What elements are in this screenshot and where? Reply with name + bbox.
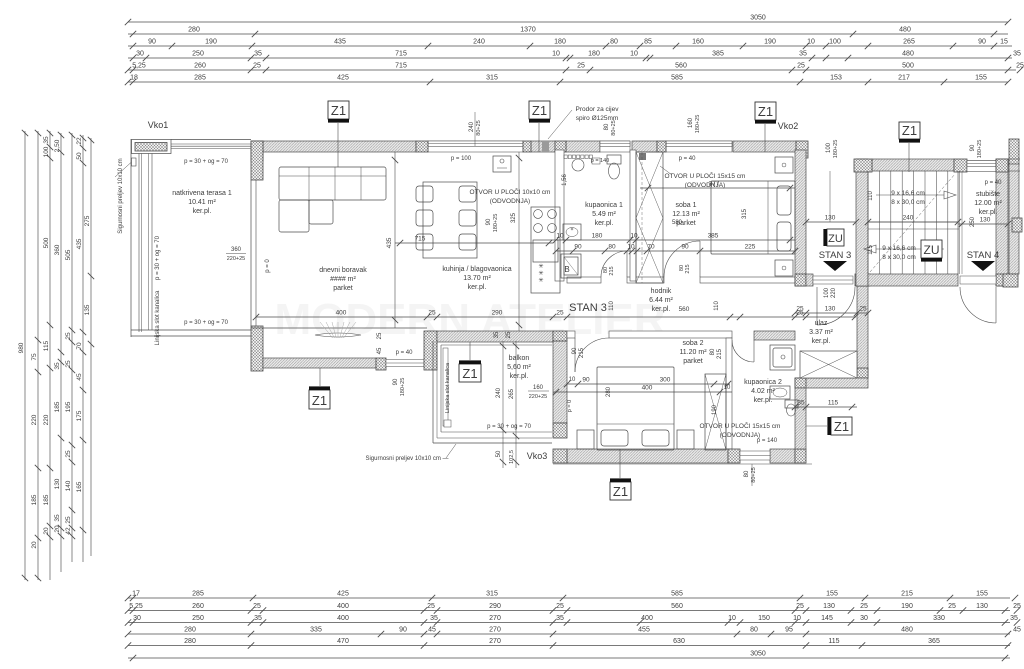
- svg-text:280: 280: [184, 638, 196, 645]
- svg-text:115: 115: [828, 399, 839, 406]
- svg-text:80: 80: [750, 626, 758, 633]
- svg-text:290: 290: [492, 309, 503, 316]
- svg-text:100: 100: [824, 287, 830, 298]
- svg-text:260: 260: [192, 603, 204, 610]
- svg-text:470: 470: [337, 638, 349, 645]
- svg-text:365: 365: [928, 638, 940, 645]
- svg-text:190: 190: [764, 38, 776, 45]
- svg-text:25: 25: [65, 360, 72, 368]
- svg-text:275: 275: [84, 215, 91, 226]
- svg-text:ulaz: ulaz: [815, 320, 828, 327]
- svg-text:90: 90: [148, 38, 156, 45]
- svg-text:25: 25: [506, 331, 512, 338]
- svg-text:715: 715: [395, 62, 407, 69]
- svg-text:17: 17: [132, 590, 140, 597]
- svg-text:70: 70: [76, 342, 83, 350]
- svg-text:215: 215: [717, 348, 723, 359]
- svg-text:42: 42: [65, 527, 72, 535]
- svg-text:220+25: 220+25: [529, 394, 548, 400]
- svg-text:425: 425: [337, 74, 349, 81]
- svg-text:270: 270: [489, 638, 501, 645]
- svg-text:90: 90: [978, 38, 986, 45]
- svg-text:10: 10: [807, 38, 815, 45]
- svg-text:3050: 3050: [750, 650, 766, 657]
- svg-text:280: 280: [188, 26, 200, 33]
- svg-text:8 x 30,0 cm: 8 x 30,0 cm: [882, 254, 916, 261]
- svg-text:parket: parket: [676, 220, 696, 227]
- svg-text:225: 225: [745, 243, 756, 250]
- svg-text:10: 10: [793, 615, 801, 622]
- svg-text:265: 265: [903, 38, 915, 45]
- svg-text:400: 400: [337, 615, 349, 622]
- svg-text:160: 160: [688, 117, 694, 128]
- svg-text:130: 130: [825, 305, 836, 312]
- svg-text:115: 115: [868, 245, 874, 255]
- svg-text:500: 500: [902, 62, 914, 69]
- svg-text:435: 435: [386, 237, 393, 248]
- svg-text:ker.pl.: ker.pl.: [510, 373, 529, 380]
- svg-text:90: 90: [393, 378, 399, 385]
- svg-text:115: 115: [43, 340, 50, 351]
- svg-text:115: 115: [828, 638, 839, 645]
- svg-text:Linijska slot kanalica: Linijska slot kanalica: [445, 362, 451, 413]
- svg-text:250: 250: [192, 615, 204, 622]
- svg-text:STAN 3: STAN 3: [819, 250, 852, 261]
- svg-text:20: 20: [54, 525, 61, 533]
- svg-text:85: 85: [644, 38, 652, 45]
- svg-text:ker.pl.: ker.pl.: [652, 306, 671, 313]
- svg-text:185: 185: [31, 494, 38, 505]
- svg-text:p = 140: p = 140: [757, 438, 778, 444]
- svg-text:p = 30 + og = 70: p = 30 + og = 70: [184, 159, 229, 165]
- svg-text:80+25: 80+25: [476, 120, 482, 135]
- svg-text:p = 140: p = 140: [591, 158, 610, 164]
- svg-text:ker.pl.: ker.pl.: [754, 397, 773, 404]
- svg-text:190: 190: [712, 404, 718, 415]
- svg-text:balkon: balkon: [509, 355, 530, 362]
- svg-text:630: 630: [673, 638, 685, 645]
- svg-text:160: 160: [533, 385, 544, 391]
- svg-text:45: 45: [1013, 626, 1021, 633]
- svg-text:325: 325: [511, 212, 517, 223]
- svg-text:ker.pl.: ker.pl.: [812, 338, 831, 345]
- svg-text:Z1: Z1: [462, 366, 477, 381]
- svg-text:45: 45: [428, 626, 436, 633]
- svg-text:10: 10: [627, 243, 635, 250]
- svg-text:6.44 m²: 6.44 m²: [649, 297, 673, 304]
- svg-text:130: 130: [54, 478, 61, 489]
- svg-text:220+25: 220+25: [227, 256, 246, 262]
- svg-text:35: 35: [54, 362, 61, 370]
- svg-text:280: 280: [184, 626, 196, 633]
- svg-text:190: 190: [205, 38, 217, 45]
- svg-text:215: 215: [609, 266, 615, 275]
- svg-text:✳: ✳: [538, 277, 543, 284]
- svg-text:135: 135: [84, 304, 91, 315]
- svg-text:90: 90: [572, 347, 578, 354]
- svg-text:stubište: stubište: [976, 191, 1000, 198]
- svg-text:p = 30 + og = 70: p = 30 + og = 70: [487, 424, 532, 430]
- svg-text:90: 90: [582, 376, 590, 383]
- svg-text:560: 560: [671, 603, 683, 610]
- svg-text:385: 385: [712, 50, 724, 57]
- svg-text:240: 240: [496, 387, 502, 398]
- svg-text:4.02 m²: 4.02 m²: [751, 388, 775, 395]
- svg-text:220: 220: [31, 414, 38, 425]
- svg-text:ker.pl.: ker.pl.: [193, 208, 212, 215]
- svg-text:11.20 m²: 11.20 m²: [679, 349, 707, 356]
- svg-text:400: 400: [641, 615, 653, 622]
- svg-text:kupaonica 2: kupaonica 2: [744, 379, 782, 386]
- svg-text:425: 425: [337, 590, 349, 597]
- svg-text:50: 50: [76, 152, 83, 160]
- svg-text:330: 330: [933, 615, 945, 622]
- svg-text:3.37 m²: 3.37 m²: [809, 329, 833, 336]
- svg-text:15: 15: [1000, 38, 1008, 45]
- svg-text:215: 215: [901, 590, 913, 597]
- svg-text:90: 90: [970, 144, 976, 151]
- svg-text:155: 155: [976, 590, 988, 597]
- svg-text:Z1: Z1: [834, 419, 849, 434]
- svg-text:STAN 4: STAN 4: [967, 250, 1000, 261]
- svg-text:p = 40: p = 40: [396, 350, 414, 356]
- svg-text:160: 160: [692, 38, 704, 45]
- svg-text:p = 40: p = 40: [985, 180, 1003, 186]
- svg-text:Z1: Z1: [758, 104, 773, 119]
- svg-text:180+25: 180+25: [833, 140, 839, 159]
- svg-text:10: 10: [630, 232, 638, 239]
- svg-text:B: B: [564, 265, 569, 274]
- svg-text:250: 250: [192, 50, 204, 57]
- svg-text:30: 30: [133, 615, 141, 622]
- svg-text:285: 285: [194, 74, 206, 81]
- svg-text:hodnik: hodnik: [651, 288, 672, 295]
- svg-text:220: 220: [831, 287, 837, 298]
- svg-text:165: 165: [76, 481, 83, 492]
- svg-text:240: 240: [473, 38, 485, 45]
- svg-text:95: 95: [785, 626, 793, 633]
- svg-text:217: 217: [898, 74, 910, 81]
- svg-text:155: 155: [826, 590, 838, 597]
- svg-text:(ODVODNJA): (ODVODNJA): [720, 432, 760, 439]
- svg-text:110: 110: [609, 301, 615, 311]
- svg-text:10: 10: [556, 232, 564, 239]
- svg-text:90: 90: [681, 243, 689, 250]
- svg-text:175: 175: [76, 410, 83, 421]
- svg-text:natkrivena terasa 1: natkrivena terasa 1: [172, 190, 232, 197]
- svg-text:190: 190: [901, 603, 913, 610]
- svg-text:(ODVODNJA): (ODVODNJA): [490, 198, 530, 205]
- svg-text:5,25: 5,25: [132, 62, 146, 69]
- svg-text:100: 100: [829, 38, 841, 45]
- svg-text:240: 240: [469, 121, 475, 132]
- svg-text:35: 35: [254, 615, 262, 622]
- svg-text:dnevni boravak: dnevni boravak: [319, 267, 367, 274]
- svg-text:130: 130: [976, 603, 988, 610]
- svg-text:180+25: 180+25: [977, 140, 983, 159]
- svg-text:Vko2: Vko2: [778, 121, 799, 131]
- svg-text:180: 180: [588, 50, 600, 57]
- svg-text:30: 30: [136, 50, 144, 57]
- svg-text:250: 250: [970, 216, 976, 227]
- svg-text:p = 40: p = 40: [679, 156, 697, 162]
- svg-text:155: 155: [975, 74, 987, 81]
- svg-text:80: 80: [744, 470, 750, 477]
- svg-text:25: 25: [428, 309, 436, 316]
- svg-text:180+25: 180+25: [493, 214, 499, 233]
- svg-text:315: 315: [486, 590, 498, 597]
- svg-text:285: 285: [192, 590, 204, 597]
- svg-text:110: 110: [714, 301, 720, 311]
- svg-text:22: 22: [76, 137, 83, 145]
- svg-text:35: 35: [494, 331, 500, 338]
- svg-text:75: 75: [31, 353, 38, 361]
- svg-text:3050: 3050: [750, 14, 766, 21]
- svg-text:5.49 m²: 5.49 m²: [592, 211, 616, 218]
- svg-text:25: 25: [859, 305, 867, 312]
- svg-text:35: 35: [430, 615, 438, 622]
- svg-text:OTVOR U PLOČI 10x10 cm: OTVOR U PLOČI 10x10 cm: [470, 187, 551, 196]
- svg-text:270: 270: [489, 615, 501, 622]
- svg-text:5,60 m²: 5,60 m²: [507, 364, 531, 371]
- svg-text:p = 30 + og = 70: p = 30 + og = 70: [155, 235, 161, 280]
- svg-text:35: 35: [254, 50, 262, 57]
- svg-text:25: 25: [796, 603, 804, 610]
- svg-text:360: 360: [54, 244, 61, 255]
- svg-text:35: 35: [797, 399, 805, 406]
- svg-text:185: 185: [54, 401, 61, 412]
- svg-text:25: 25: [556, 603, 564, 610]
- svg-text:25: 25: [860, 603, 868, 610]
- svg-text:315: 315: [486, 74, 498, 81]
- svg-text:180+25: 180+25: [695, 115, 701, 134]
- svg-text:150: 150: [758, 615, 770, 622]
- svg-text:980: 980: [18, 342, 25, 353]
- svg-text:10: 10: [724, 385, 731, 391]
- svg-text:p = 0: p = 0: [567, 400, 573, 412]
- svg-text:Z1: Z1: [331, 103, 346, 118]
- svg-text:✳: ✳: [538, 263, 543, 270]
- svg-text:480: 480: [901, 626, 913, 633]
- svg-text:195: 195: [65, 401, 72, 412]
- svg-text:435: 435: [76, 238, 83, 249]
- svg-text:25: 25: [797, 62, 805, 69]
- svg-text:300: 300: [660, 376, 671, 383]
- svg-text:140: 140: [65, 480, 72, 491]
- svg-text:50: 50: [496, 450, 502, 457]
- svg-text:560: 560: [675, 62, 687, 69]
- svg-text:80: 80: [610, 38, 618, 45]
- svg-text:kuhinja / blagovaonica: kuhinja / blagovaonica: [442, 266, 511, 273]
- svg-text:STAN 3: STAN 3: [569, 302, 607, 314]
- svg-text:215: 215: [685, 264, 691, 273]
- svg-text:80+25: 80+25: [611, 120, 617, 135]
- svg-text:130: 130: [980, 216, 991, 223]
- svg-text:385: 385: [708, 232, 719, 239]
- svg-text:25: 25: [1013, 603, 1021, 610]
- svg-text:90: 90: [399, 626, 407, 633]
- svg-text:240: 240: [903, 214, 914, 221]
- svg-text:ZU: ZU: [924, 243, 940, 257]
- svg-text:25: 25: [556, 309, 564, 316]
- svg-text:145: 145: [821, 615, 833, 622]
- svg-text:185: 185: [43, 494, 50, 505]
- svg-text:480: 480: [899, 26, 911, 33]
- svg-text:455: 455: [638, 626, 650, 633]
- svg-text:25: 25: [253, 603, 261, 610]
- svg-text:Vko3: Vko3: [527, 451, 548, 461]
- svg-text:35: 35: [54, 514, 61, 522]
- svg-text:(ODVODNJA): (ODVODNJA): [685, 182, 725, 189]
- svg-text:ZU: ZU: [828, 233, 843, 245]
- svg-text:p = 0: p = 0: [265, 259, 271, 273]
- svg-text:100: 100: [826, 142, 832, 153]
- svg-text:✳: ✳: [538, 270, 543, 277]
- svg-text:585: 585: [671, 590, 683, 597]
- svg-text:Linijska slot kanalica: Linijska slot kanalica: [155, 290, 161, 345]
- svg-text:1370: 1370: [520, 26, 536, 33]
- svg-text:soba 2: soba 2: [682, 340, 703, 347]
- svg-text:25: 25: [427, 603, 435, 610]
- svg-text:180+25: 180+25: [400, 378, 406, 397]
- svg-text:soba 1: soba 1: [675, 202, 696, 209]
- svg-text:Z1: Z1: [532, 103, 547, 118]
- svg-text:715: 715: [395, 50, 407, 57]
- svg-text:360: 360: [231, 247, 242, 253]
- svg-text:Z1: Z1: [312, 393, 327, 408]
- svg-text:80: 80: [710, 348, 716, 355]
- svg-text:25: 25: [65, 332, 72, 340]
- svg-text:400: 400: [337, 603, 349, 610]
- svg-text:spiro Ø125mm: spiro Ø125mm: [576, 115, 619, 122]
- svg-text:290: 290: [489, 603, 501, 610]
- svg-text:480: 480: [902, 50, 914, 57]
- svg-text:220: 220: [43, 414, 50, 425]
- svg-text:180: 180: [554, 38, 566, 45]
- svg-text:265: 265: [509, 388, 515, 399]
- svg-text:25: 25: [948, 603, 956, 610]
- svg-text:20: 20: [31, 541, 38, 549]
- svg-text:25: 25: [65, 450, 72, 458]
- svg-text:25: 25: [796, 305, 804, 312]
- svg-text:400: 400: [336, 309, 347, 316]
- svg-text:130: 130: [823, 603, 835, 610]
- svg-text:p = 100: p = 100: [451, 156, 472, 162]
- svg-text:90: 90: [574, 243, 582, 250]
- svg-text:435: 435: [334, 38, 346, 45]
- svg-text:10.41 m²: 10.41 m²: [188, 199, 216, 206]
- svg-text:Sigurnosni preljev 10x10 cm —: Sigurnosni preljev 10x10 cm —: [365, 456, 448, 462]
- svg-text:25: 25: [577, 62, 585, 69]
- svg-text:35: 35: [1010, 615, 1018, 622]
- svg-text:280: 280: [606, 386, 612, 397]
- svg-text:ker.pl.: ker.pl.: [595, 220, 614, 227]
- svg-text:560: 560: [679, 306, 690, 313]
- svg-text:500: 500: [43, 237, 50, 248]
- svg-text:25: 25: [65, 516, 72, 524]
- svg-text:215: 215: [579, 347, 585, 358]
- svg-text:260: 260: [194, 62, 206, 69]
- svg-text:Vko1: Vko1: [148, 120, 169, 130]
- svg-text:13.70 m²: 13.70 m²: [463, 275, 491, 282]
- svg-text:10: 10: [569, 377, 576, 383]
- svg-text:80: 80: [608, 243, 616, 250]
- svg-text:18: 18: [130, 74, 138, 81]
- svg-text:100: 100: [43, 146, 50, 157]
- svg-text:12.13 m²: 12.13 m²: [672, 211, 700, 218]
- svg-text:315: 315: [742, 208, 748, 219]
- svg-text:8 x 30,0 cm: 8 x 30,0 cm: [891, 199, 925, 206]
- svg-text:335: 335: [310, 626, 322, 633]
- svg-text:25: 25: [253, 62, 261, 69]
- svg-text:kupaonica 1: kupaonica 1: [585, 202, 623, 209]
- svg-text:Z1: Z1: [902, 123, 917, 138]
- svg-text:10: 10: [630, 50, 638, 57]
- svg-text:90: 90: [486, 218, 492, 225]
- svg-text:Z1: Z1: [613, 484, 628, 499]
- svg-text:110: 110: [868, 191, 874, 201]
- svg-text:70: 70: [647, 243, 655, 250]
- svg-text:35: 35: [799, 50, 807, 57]
- svg-text:9 x 16,6 cm: 9 x 16,6 cm: [882, 245, 916, 252]
- svg-text:35: 35: [43, 136, 50, 144]
- svg-text:45: 45: [377, 347, 383, 354]
- svg-text:715: 715: [415, 235, 426, 242]
- svg-text:p = 30 + og = 70: p = 30 + og = 70: [184, 320, 229, 326]
- svg-text:10: 10: [728, 615, 736, 622]
- svg-text:Prodor za cijev: Prodor za cijev: [576, 106, 620, 113]
- svg-text:180: 180: [592, 232, 603, 239]
- svg-text:25: 25: [1016, 62, 1024, 69]
- svg-text:2,50: 2,50: [54, 139, 61, 152]
- svg-text:ker.pl.: ker.pl.: [979, 209, 998, 216]
- svg-text:OTVOR U PLOČI 15x15 cm: OTVOR U PLOČI 15x15 cm: [665, 171, 746, 180]
- svg-text:585: 585: [671, 74, 683, 81]
- svg-text:#### m²: #### m²: [330, 276, 356, 283]
- svg-text:25: 25: [377, 332, 383, 339]
- svg-text:12.00 m²: 12.00 m²: [974, 200, 1002, 207]
- svg-text:35: 35: [1013, 50, 1021, 57]
- svg-text:parket: parket: [683, 358, 703, 365]
- svg-text:5,25: 5,25: [129, 603, 143, 610]
- svg-text:80: 80: [604, 123, 610, 130]
- svg-text:9 x 16,6 cm: 9 x 16,6 cm: [891, 190, 925, 197]
- svg-text:ker.pl.: ker.pl.: [468, 284, 487, 291]
- svg-text:102,5: 102,5: [509, 450, 515, 464]
- svg-text:30: 30: [860, 615, 868, 622]
- svg-text:153: 153: [830, 74, 842, 81]
- svg-text:20: 20: [43, 527, 50, 535]
- svg-text:10: 10: [552, 50, 560, 57]
- svg-text:45: 45: [76, 373, 83, 381]
- svg-text:1,56: 1,56: [562, 174, 568, 186]
- svg-text:parket: parket: [333, 285, 353, 292]
- svg-text:35: 35: [556, 615, 564, 622]
- svg-text:OTVOR U PLOČI 15x15 cm: OTVOR U PLOČI 15x15 cm: [700, 421, 781, 430]
- svg-text:400: 400: [642, 384, 653, 391]
- svg-text:270: 270: [489, 626, 501, 633]
- svg-text:505: 505: [65, 249, 72, 260]
